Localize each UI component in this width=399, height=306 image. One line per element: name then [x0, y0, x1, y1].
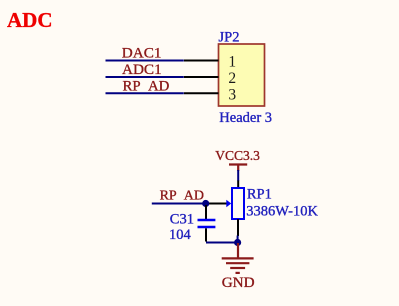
pin 1: [184, 54, 236, 71]
connector JP2 body: [219, 44, 265, 106]
wire RP_AD: [106, 92, 184, 94]
svg-text:ADC1: ADC1: [122, 61, 162, 78]
capacitor C31: [198, 205, 216, 242]
power port VCC3.3: [215, 148, 260, 171]
svg-text:1: 1: [228, 54, 236, 71]
wire RP_AD to wiper: [152, 203, 206, 205]
wire DAC1: [106, 60, 184, 62]
junction at wiper wire: [202, 200, 209, 207]
svg-text:104: 104: [169, 227, 192, 243]
wire VCC to RP1: [237, 170, 239, 181]
svg-text:3386W-10K: 3386W-10K: [246, 204, 318, 220]
svg-text:RP AD: RP AD: [123, 79, 170, 95]
svg-text:GND: GND: [222, 274, 255, 291]
svg-text:JP2: JP2: [219, 30, 240, 46]
svg-text:RP AD: RP AD: [160, 189, 204, 204]
wire ADC1: [106, 76, 184, 78]
potentiometer RP1: [206, 181, 244, 237]
svg-text:C31: C31: [170, 212, 194, 228]
svg-text:ADC: ADC: [7, 8, 53, 32]
svg-text:2: 2: [228, 70, 236, 87]
svg-text:3: 3: [228, 86, 236, 103]
pin 3: [184, 86, 236, 103]
junction at GND node: [234, 239, 241, 246]
svg-text:RP1: RP1: [247, 187, 272, 203]
ground GND: [222, 243, 255, 291]
svg-text:DAC1: DAC1: [122, 44, 162, 61]
pin 2: [184, 70, 236, 87]
wire cap bottom to RP1 bottom: [206, 236, 238, 243]
svg-text:Header 3: Header 3: [219, 110, 272, 126]
svg-text:VCC3.3: VCC3.3: [215, 148, 260, 163]
